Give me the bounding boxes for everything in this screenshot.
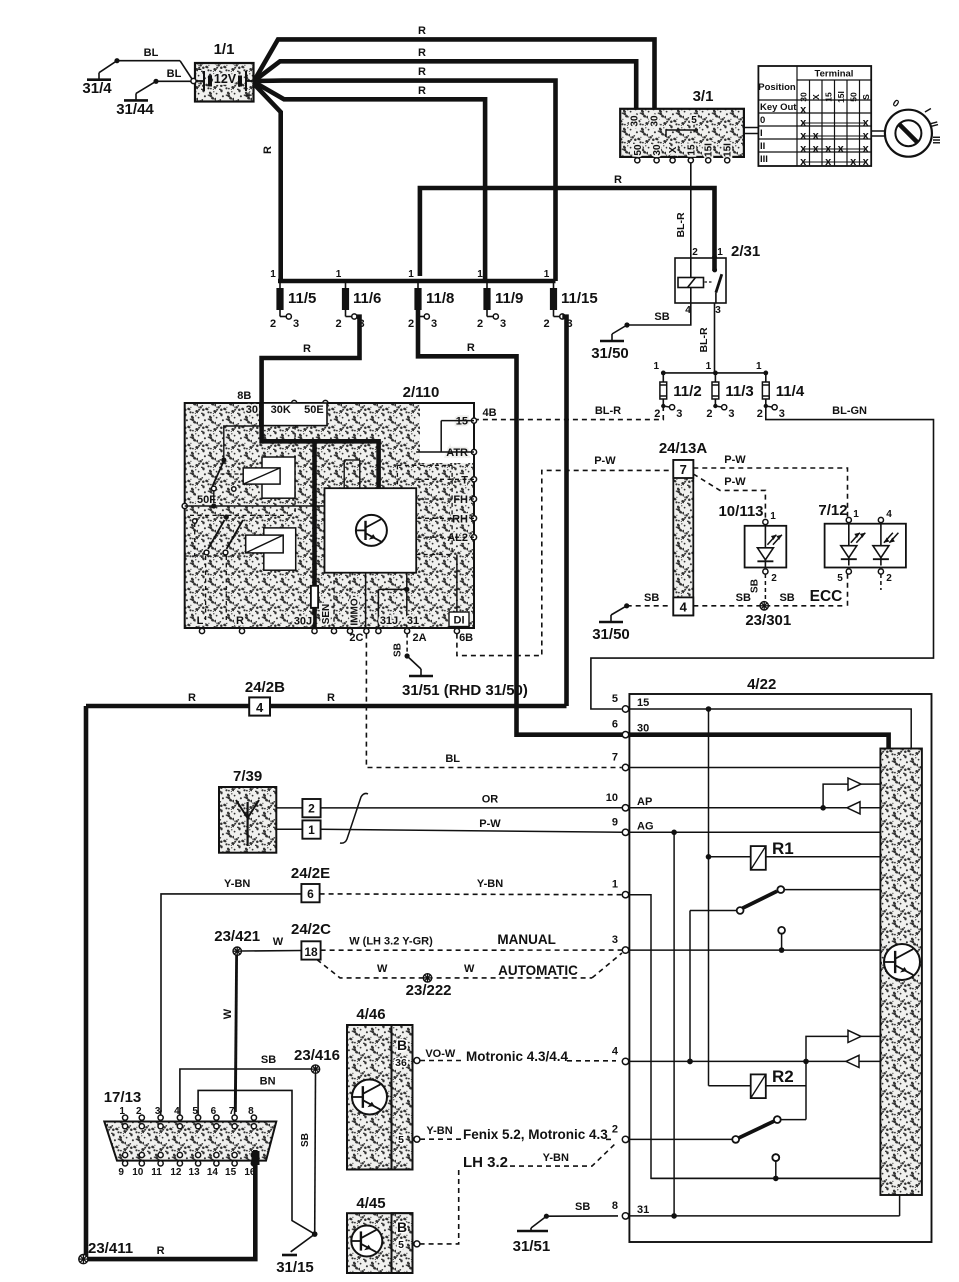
svg-text:3: 3 <box>500 318 506 330</box>
svg-text:8: 8 <box>612 1200 618 1212</box>
svg-text:R1: R1 <box>772 839 794 858</box>
svg-text:R: R <box>418 66 426 78</box>
svg-text:Y-BN: Y-BN <box>477 878 503 890</box>
svg-text:P-W: P-W <box>724 454 746 466</box>
svg-text:R: R <box>614 174 622 186</box>
svg-text:11/15: 11/15 <box>561 290 598 307</box>
svg-text:11/4: 11/4 <box>776 383 805 400</box>
svg-text:4/45: 4/45 <box>356 1195 385 1212</box>
svg-text:3: 3 <box>779 408 785 420</box>
svg-text:BN: BN <box>260 1076 276 1088</box>
svg-text:P-W: P-W <box>724 476 746 488</box>
svg-text:15I: 15I <box>723 143 734 157</box>
svg-text:12V: 12V <box>214 72 237 86</box>
svg-text:3: 3 <box>293 318 299 330</box>
svg-text:5: 5 <box>612 693 618 705</box>
svg-text:BL-R: BL-R <box>698 327 710 352</box>
svg-text:LH 3.2: LH 3.2 <box>463 1154 508 1171</box>
svg-text:SB: SB <box>300 1133 311 1147</box>
svg-text:10/113: 10/113 <box>718 503 763 520</box>
svg-text:31/15: 31/15 <box>276 1259 314 1276</box>
svg-text:2: 2 <box>757 408 763 420</box>
svg-text:3: 3 <box>431 318 437 330</box>
svg-text:15: 15 <box>225 1167 237 1178</box>
svg-text:7: 7 <box>680 462 687 477</box>
svg-text:Position: Position <box>758 82 796 93</box>
svg-text:BL: BL <box>167 68 182 80</box>
svg-text:11/8: 11/8 <box>426 290 454 307</box>
svg-text:4/46: 4/46 <box>356 1006 385 1023</box>
svg-text:Key Out: Key Out <box>760 102 797 113</box>
svg-text:SB: SB <box>393 643 404 657</box>
svg-text:11/5: 11/5 <box>288 290 316 307</box>
svg-text:1: 1 <box>853 509 859 520</box>
svg-text:RH: RH <box>452 513 468 525</box>
svg-text:Fenix 5.2, Motronic 4.3: Fenix 5.2, Motronic 4.3 <box>463 1127 608 1142</box>
svg-text:4B: 4B <box>483 407 497 419</box>
svg-text:31/50: 31/50 <box>592 626 630 643</box>
svg-text:Y-BN: Y-BN <box>224 878 250 890</box>
svg-text:2: 2 <box>771 573 777 584</box>
svg-text:5: 5 <box>398 1134 404 1146</box>
svg-text:13: 13 <box>189 1167 201 1178</box>
svg-text:III: III <box>760 154 768 165</box>
svg-text:II: II <box>760 141 765 152</box>
svg-text:SB: SB <box>575 1201 590 1213</box>
svg-text:W: W <box>377 963 388 975</box>
svg-text:15I: 15I <box>704 143 715 157</box>
svg-text:15I: 15I <box>836 91 846 103</box>
svg-text:W: W <box>464 963 475 975</box>
svg-text:R: R <box>418 47 426 59</box>
svg-text:6: 6 <box>612 719 618 731</box>
svg-text:x: x <box>800 104 807 116</box>
svg-text:2: 2 <box>308 802 315 816</box>
svg-text:11/3: 11/3 <box>725 383 753 400</box>
svg-text:36: 36 <box>395 1057 407 1069</box>
svg-text:4/22: 4/22 <box>747 676 776 693</box>
svg-text:1: 1 <box>336 269 342 280</box>
svg-text:2A: 2A <box>412 632 426 644</box>
svg-text:23/416: 23/416 <box>294 1047 340 1064</box>
svg-text:12: 12 <box>170 1167 182 1178</box>
svg-text:BL-R: BL-R <box>675 212 687 237</box>
svg-text:31/44: 31/44 <box>116 101 154 118</box>
svg-text:23/421: 23/421 <box>214 928 260 945</box>
svg-text:W (LH 3.2 Y-GR): W (LH 3.2 Y-GR) <box>349 936 433 948</box>
svg-text:23/222: 23/222 <box>406 982 452 999</box>
svg-text:30: 30 <box>629 115 640 127</box>
svg-text:14: 14 <box>207 1167 219 1178</box>
svg-text:R: R <box>418 25 426 37</box>
svg-text:31: 31 <box>407 615 419 627</box>
svg-text:BL: BL <box>144 47 159 59</box>
svg-text:11: 11 <box>151 1167 162 1178</box>
svg-text:24/13A: 24/13A <box>659 440 708 457</box>
svg-text:ECC: ECC <box>810 588 843 605</box>
svg-text:SB: SB <box>261 1054 276 1066</box>
svg-text:17/13: 17/13 <box>104 1089 142 1106</box>
svg-text:23/411: 23/411 <box>88 1240 133 1257</box>
svg-text:BL: BL <box>445 753 460 765</box>
svg-text:1: 1 <box>477 269 483 280</box>
svg-text:X: X <box>811 94 821 100</box>
svg-text:2: 2 <box>706 408 712 420</box>
svg-text:VO-W: VO-W <box>425 1048 456 1060</box>
svg-text:S: S <box>861 94 871 100</box>
svg-text:2: 2 <box>886 573 892 584</box>
svg-text:31/51 (RHD 31/50): 31/51 (RHD 31/50) <box>402 682 528 699</box>
svg-text:BL-R: BL-R <box>595 405 621 417</box>
svg-text:10: 10 <box>132 1167 144 1178</box>
svg-text:X: X <box>668 146 679 153</box>
svg-text:2: 2 <box>654 408 660 420</box>
svg-text:B: B <box>397 1037 407 1053</box>
svg-text:1: 1 <box>612 879 618 891</box>
svg-text:2: 2 <box>612 1123 618 1135</box>
svg-text:AG: AG <box>637 820 654 832</box>
svg-text:23/301: 23/301 <box>745 612 791 629</box>
svg-text:2/110: 2/110 <box>403 384 440 401</box>
svg-text:Terminal: Terminal <box>815 69 854 80</box>
svg-text:SB: SB <box>654 311 669 323</box>
svg-text:P-W: P-W <box>594 455 616 467</box>
svg-text:R2: R2 <box>772 1067 794 1086</box>
svg-text:3: 3 <box>612 934 618 946</box>
svg-text:1: 1 <box>654 361 660 372</box>
svg-text:30: 30 <box>246 404 258 416</box>
svg-text:1: 1 <box>717 247 723 258</box>
svg-text:AUTOMATIC: AUTOMATIC <box>498 963 578 978</box>
svg-text:R: R <box>236 615 244 627</box>
svg-text:30K: 30K <box>271 404 291 416</box>
svg-text:3: 3 <box>676 408 682 420</box>
svg-text:1: 1 <box>270 269 276 280</box>
svg-text:5: 5 <box>691 115 697 126</box>
svg-text:11/2: 11/2 <box>673 383 701 400</box>
svg-text:1: 1 <box>770 511 776 522</box>
svg-text:4: 4 <box>886 509 892 520</box>
svg-text:9: 9 <box>612 816 618 828</box>
svg-text:2C: 2C <box>349 632 363 644</box>
svg-text:2/31: 2/31 <box>731 243 760 260</box>
svg-text:L: L <box>197 615 204 627</box>
svg-text:4: 4 <box>612 1045 619 1057</box>
svg-text:7: 7 <box>612 752 618 764</box>
svg-text:SEN: SEN <box>321 604 332 625</box>
svg-text:R: R <box>467 342 475 354</box>
svg-text:50: 50 <box>849 92 859 102</box>
svg-text:10: 10 <box>606 792 618 804</box>
svg-text:0: 0 <box>760 115 765 126</box>
svg-text:R: R <box>157 1245 165 1257</box>
svg-text:2: 2 <box>335 318 341 330</box>
svg-text:11/9: 11/9 <box>495 290 523 307</box>
svg-text:MANUAL: MANUAL <box>497 932 556 947</box>
svg-text:2: 2 <box>270 318 276 330</box>
svg-text:30: 30 <box>650 115 661 127</box>
svg-text:24/2E: 24/2E <box>291 865 330 882</box>
svg-text:8B: 8B <box>237 390 251 402</box>
svg-text:DI: DI <box>454 615 465 627</box>
svg-text:1: 1 <box>408 269 414 280</box>
svg-text:2: 2 <box>408 318 414 330</box>
svg-text:5: 5 <box>398 1239 404 1251</box>
svg-text:5: 5 <box>837 573 843 584</box>
svg-text:3: 3 <box>715 305 721 316</box>
svg-text:2: 2 <box>692 247 698 258</box>
svg-text:31J: 31J <box>380 615 398 627</box>
svg-text:1: 1 <box>706 361 712 372</box>
svg-text:6B: 6B <box>459 632 473 644</box>
svg-text:+: + <box>246 90 252 102</box>
svg-text:50E: 50E <box>304 404 324 416</box>
svg-text:W: W <box>273 936 284 948</box>
svg-text:AL2: AL2 <box>447 532 468 544</box>
svg-text:24/2C: 24/2C <box>291 921 331 938</box>
svg-text:R: R <box>303 343 311 355</box>
svg-text:BL-GN: BL-GN <box>832 405 867 417</box>
svg-text:11/6: 11/6 <box>353 290 381 307</box>
svg-text:ATR: ATR <box>446 447 468 459</box>
svg-text:SB: SB <box>750 579 761 593</box>
svg-text:R: R <box>327 692 335 704</box>
svg-text:1: 1 <box>308 823 315 837</box>
svg-text:15: 15 <box>456 416 468 428</box>
svg-text:R: R <box>418 85 426 97</box>
svg-text:31/4: 31/4 <box>82 80 112 97</box>
svg-text:31: 31 <box>637 1204 649 1216</box>
svg-text:18: 18 <box>304 945 318 959</box>
svg-text:15: 15 <box>686 144 697 156</box>
svg-text:2: 2 <box>543 318 549 330</box>
svg-text:1/1: 1/1 <box>214 41 235 58</box>
svg-text:1: 1 <box>756 361 762 372</box>
svg-text:AP: AP <box>637 796 652 808</box>
svg-text:SB: SB <box>644 592 659 604</box>
svg-text:15: 15 <box>824 92 834 102</box>
svg-text:Y-BN: Y-BN <box>426 1125 452 1137</box>
svg-text:50: 50 <box>633 144 644 156</box>
svg-text:31/50: 31/50 <box>591 345 629 362</box>
svg-text:R: R <box>262 146 274 154</box>
svg-text:6: 6 <box>307 887 314 901</box>
svg-text:W: W <box>222 1008 234 1019</box>
svg-text:IMMO: IMMO <box>350 598 361 625</box>
svg-text:15: 15 <box>637 697 649 709</box>
svg-text:SB: SB <box>779 592 794 604</box>
svg-text:1: 1 <box>544 269 550 280</box>
svg-text:Y-BN: Y-BN <box>543 1152 569 1164</box>
svg-text:9: 9 <box>118 1167 124 1178</box>
svg-text:III: III <box>930 136 941 145</box>
svg-text:Motronic 4.3/4.4: Motronic 4.3/4.4 <box>466 1049 569 1064</box>
svg-text:4: 4 <box>256 700 264 715</box>
svg-text:30: 30 <box>799 92 809 102</box>
svg-text:30: 30 <box>652 144 663 156</box>
svg-text:T: T <box>461 474 468 486</box>
svg-text:B: B <box>397 1219 407 1235</box>
svg-text:24/2B: 24/2B <box>245 679 285 696</box>
svg-text:4: 4 <box>680 599 688 614</box>
svg-text:R: R <box>188 692 196 704</box>
svg-text:3/1: 3/1 <box>693 88 714 105</box>
svg-text:7/39: 7/39 <box>233 768 262 785</box>
svg-text:P-W: P-W <box>479 818 501 830</box>
svg-text:30J: 30J <box>294 616 312 628</box>
svg-text:31/51: 31/51 <box>513 1238 551 1255</box>
svg-text:FH: FH <box>453 494 468 506</box>
svg-text:7/12: 7/12 <box>818 502 847 519</box>
svg-text:-: - <box>198 63 202 75</box>
svg-text:3: 3 <box>728 408 734 420</box>
svg-text:OR: OR <box>482 794 499 806</box>
svg-text:I: I <box>760 128 763 139</box>
svg-text:2: 2 <box>477 318 483 330</box>
